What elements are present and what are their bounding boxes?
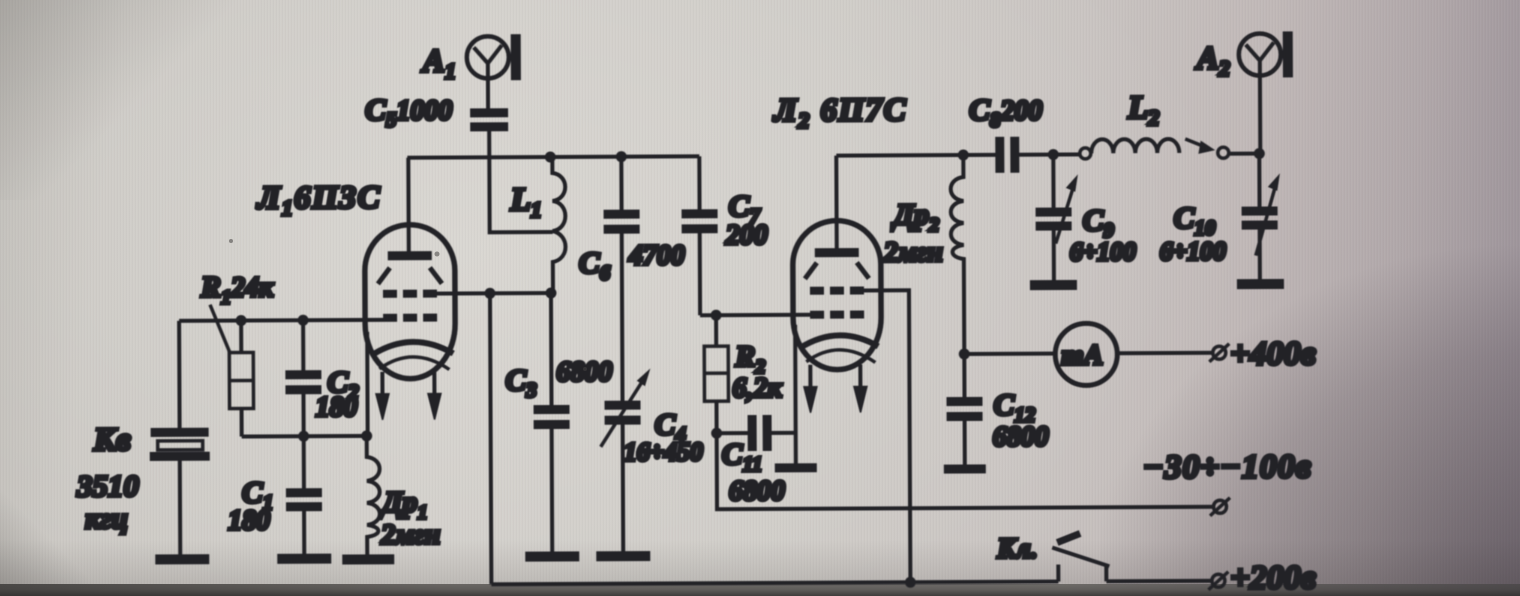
ground (C10) [1237, 279, 1284, 289]
svg-text:А1: А1 [421, 43, 456, 83]
capacitor C7 200 [681, 156, 768, 315]
svg-text:R124к: R124к [200, 270, 274, 308]
node Dr2 top on anode line [958, 149, 969, 160]
svg-text:6800: 6800 [729, 476, 785, 507]
ground (Dr1) [342, 554, 394, 564]
ground (crystal) [155, 554, 209, 564]
capacitor C3 6800 [505, 293, 613, 553]
wire anode supply to mA meter [964, 352, 1054, 356]
terminal +200v [1208, 559, 1316, 596]
wire tube2 screen to +200v line [860, 290, 910, 582]
ground (tube2 cathode) [775, 463, 817, 472]
wire +200v bottom line [491, 582, 1058, 585]
wire grid line of tube 1 [179, 320, 392, 321]
capacitor C11 6800 [717, 415, 796, 507]
svg-text:6÷100: 6÷100 [1160, 237, 1226, 266]
wire screen/+200 node line of stage 1 [437, 291, 551, 296]
tube U1 (Л1 6П3С) [255, 157, 455, 436]
svg-text:+200в: +200в [1230, 559, 1316, 596]
svg-text:6÷100: 6÷100 [1070, 237, 1136, 266]
coil L1 with antenna tap [509, 157, 565, 293]
wire top tank bus [407, 156, 699, 157]
ground (C4) [596, 551, 650, 561]
svg-text:2мгн: 2мгн [380, 520, 440, 551]
milliammeter mA [1055, 323, 1117, 385]
svg-text:С10: С10 [1174, 200, 1216, 240]
svg-text:L1: L1 [509, 182, 541, 222]
antenna lamp A1 [421, 34, 521, 108]
wire cathode mid line [242, 434, 368, 439]
wire left drop to crystal [177, 321, 182, 429]
node L1 top on tank bus [545, 151, 556, 162]
svg-text:mA: mA [1061, 339, 1103, 371]
svg-text:Л2 6П7С: Л2 6П7С [772, 92, 907, 133]
wire +200v riser from screen line [490, 293, 491, 584]
variable capacitor C9 6÷100 [1035, 154, 1136, 280]
svg-text:Др1: Др1 [379, 486, 428, 524]
key switch Kl [996, 533, 1109, 582]
coil L2 with terminals [1079, 90, 1228, 159]
capacitor C8 200 [969, 92, 1043, 173]
wire antenna tap: C5 lead down through bus to L1 tap [489, 129, 553, 232]
svg-text:6800: 6800 [993, 422, 1049, 453]
svg-text:3510: 3510 [76, 468, 139, 503]
svg-text:4700: 4700 [628, 240, 685, 271]
svg-text:Др2: Др2 [891, 198, 940, 236]
node R2 bottom / C11 [711, 428, 722, 439]
wire L2 to antenna node [1229, 152, 1259, 156]
node L1 bottom / C3 top [545, 287, 556, 298]
node C6 top on tank bus [616, 151, 627, 162]
wire mA meter to +400v terminal [1117, 351, 1211, 355]
wire C8 to L2 [1019, 152, 1079, 156]
svg-text:+400в: +400в [1230, 335, 1316, 372]
node R2 top / tube2 grid [711, 310, 722, 321]
node C2 top on grid line [298, 315, 309, 326]
svg-text:6,2к: 6,2к [732, 373, 782, 404]
svg-text:кгц: кгц [85, 502, 128, 535]
svg-text:180: 180 [315, 392, 357, 423]
svg-text:180: 180 [228, 505, 270, 536]
variable capacitor C4 16÷450 [600, 371, 703, 551]
svg-text:Кв: Кв [93, 422, 132, 458]
wire bias line -30..-100v [717, 399, 1213, 509]
svg-text:С8200: С8200 [969, 92, 1042, 132]
ground (C1) [277, 554, 331, 564]
tube U2 (Л2 6П7С) [772, 92, 909, 464]
capacitor C12 6800 [946, 354, 1049, 465]
variable capacitor C10 6÷100 [1159, 153, 1279, 280]
svg-text:−30÷−100в: −30÷−100в [1143, 448, 1312, 486]
terminal +400v [1209, 335, 1316, 373]
node Dr2 bottom / C12 / meter line [959, 348, 970, 359]
wire grid line of tube 2 from C7 [700, 313, 812, 318]
choke Dr1 2mgn [367, 436, 441, 555]
svg-text:С51000: С51000 [365, 92, 452, 132]
svg-text:16÷450: 16÷450 [624, 437, 703, 466]
node R1 top on grid line [236, 315, 247, 326]
node A2 / C10 on output line [1254, 148, 1265, 159]
svg-text:L2: L2 [1127, 90, 1159, 130]
resistor R2 6,2k [704, 315, 782, 404]
node C9 top on output line [1048, 149, 1059, 160]
ground (C12) [944, 464, 986, 473]
choke Dr2 2mgn [882, 155, 964, 354]
capacitor C6 4700 [578, 156, 685, 401]
node cathode / Dr1 [361, 430, 372, 441]
capacitor C2 180 [285, 320, 359, 436]
node tube2 screen riser on +200v line [905, 577, 916, 588]
ground (C9) [1030, 280, 1077, 290]
svg-text:Кл.: Кл. [996, 534, 1038, 565]
svg-text:Л16ПЗС: Л16ПЗС [255, 180, 381, 221]
svg-text:А2: А2 [1195, 41, 1230, 81]
svg-text:2мгн: 2мгн [883, 237, 943, 268]
svg-text:6800: 6800 [556, 357, 612, 388]
terminal -30÷-100v [1143, 448, 1312, 516]
ground (C3) [525, 551, 579, 561]
quartz crystal Kv 3510 kHz [76, 422, 211, 556]
capacitor C1 180 [228, 436, 323, 554]
node C1/C2 on cathode line [298, 431, 309, 442]
svg-text:200: 200 [725, 220, 768, 251]
capacitor C5 1000 [365, 91, 508, 132]
wire +200v after switch to terminal [1106, 579, 1211, 584]
node +200v riser on screen line [484, 288, 495, 299]
resistor R1 24k (adjustable) [200, 270, 275, 436]
svg-text:С6: С6 [579, 245, 611, 285]
wire tube2 anode line [836, 153, 995, 158]
antenna lamp A2 [1195, 31, 1294, 153]
svg-text:С3: С3 [505, 362, 536, 402]
